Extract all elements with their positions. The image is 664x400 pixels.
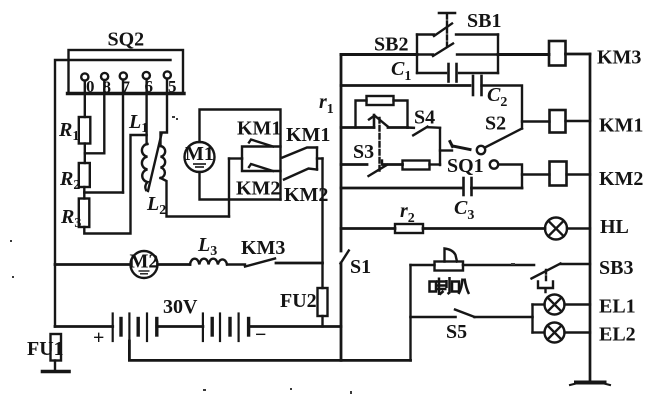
- wire horn branch vertical: [409, 265, 411, 360]
- wire KM2 coil to right rail: [567, 173, 591, 175]
- svg-text:KM3: KM3: [597, 47, 641, 69]
- resistor r2: [395, 224, 423, 233]
- svg-text:M2: M2: [130, 251, 159, 273]
- wire SQ1 lower contact to KM2 coil: [498, 165, 522, 189]
- svg-text:S2: S2: [485, 113, 506, 135]
- wire left rail top jog into SQ2: [55, 60, 171, 327]
- battery B1 plates: [113, 314, 157, 342]
- wire row F r2 branch: [341, 227, 395, 230]
- wire M2 row: [55, 263, 131, 266]
- svg-text:FU2: FU2: [280, 290, 317, 312]
- wire contact box bottom edge: [242, 159, 281, 172]
- wire lamps junction vertical: [531, 305, 533, 333]
- wire to SQ1 pivot: [440, 149, 452, 151]
- svg-text:KM2: KM2: [284, 184, 328, 206]
- node SQ1 upper contact: [477, 146, 485, 154]
- wire r2 to HL: [423, 227, 545, 230]
- wire row C from rail: [341, 126, 374, 129]
- svg-text:SQ1: SQ1: [447, 155, 484, 177]
- node SQ1 lower contact: [490, 160, 498, 168]
- wire S5 to lamps junction: [475, 316, 533, 319]
- pushbutton SB3 blade: [532, 264, 561, 279]
- wire L3 to KM3 contact: [227, 263, 245, 265]
- wire row B C2 branch: [341, 84, 470, 87]
- coil KM3: [549, 41, 566, 66]
- switch S1 blade: [341, 251, 349, 264]
- switch S4 blade: [408, 126, 414, 129]
- wire L2 bottom to motor block: [161, 178, 230, 217]
- svg-text:KM1: KM1: [237, 118, 281, 140]
- svg-text:KM3: KM3: [241, 237, 285, 259]
- pushbutton SB1 actuator: [446, 15, 448, 47]
- svg-text:0: 0: [86, 77, 95, 96]
- wire SB block bottom edge: [417, 72, 446, 74]
- svg-text:S5: S5: [446, 321, 467, 343]
- wire row D to S4 junction: [430, 163, 441, 165]
- fuse FU1: [51, 334, 62, 361]
- wire M1 top loop: [200, 110, 281, 200]
- svg-text:8: 8: [103, 78, 112, 97]
- svg-text:M1: M1: [185, 143, 214, 165]
- wire right contacts edge: [316, 148, 318, 170]
- wire FU2 to battery wire: [321, 316, 323, 327]
- label horn chinese characters: [430, 277, 470, 295]
- wire terminal 8 down: [103, 80, 105, 153]
- battery B2 plates: [203, 314, 249, 342]
- wire S5 row: [411, 316, 456, 319]
- wire battery tap down: [129, 341, 410, 360]
- contact KM1 left blade: [249, 140, 273, 147]
- scan speckles: [10, 116, 515, 394]
- coil KM1: [550, 110, 566, 133]
- wire S4 down to SQ1: [439, 128, 441, 165]
- wire battery middle link: [157, 325, 203, 328]
- wire terminal 7 down: [122, 80, 124, 193]
- resistor in row D: [403, 161, 430, 170]
- wire tap R1/R2 junction to terminal 8 line: [85, 152, 105, 154]
- switch S3 lower blade: [369, 165, 388, 176]
- motor M1: [185, 142, 215, 172]
- wire C2 to KM1 coil: [482, 86, 523, 129]
- wire middle tap down: [228, 159, 230, 217]
- svg-text:HL: HL: [600, 216, 629, 238]
- wire HL to right rail: [567, 227, 590, 229]
- switch S3 upper blade: [373, 115, 376, 128]
- wire top row A: [341, 53, 417, 56]
- wire terminal 0 down to R1: [84, 81, 86, 117]
- contact KM1 right blade: [283, 148, 318, 158]
- battery positive wire: [55, 325, 113, 328]
- node terminal 8: [101, 73, 108, 80]
- wire right contacts tap: [317, 157, 323, 159]
- svg-text:+: +: [93, 327, 104, 349]
- wire C3 to junction: [472, 187, 523, 190]
- wire R3 bottom to L1 primary return: [84, 135, 146, 234]
- switch SQ1 pivot and blade: [450, 142, 453, 147]
- wire M1 bottom: [200, 172, 281, 200]
- wire row D to resistor: [383, 163, 403, 166]
- svg-text:7: 7: [122, 78, 131, 97]
- wire SB block top edge: [417, 33, 434, 35]
- pushbutton SB3 actuator: [545, 270, 547, 281]
- wire middle tap to box: [229, 157, 242, 159]
- inductor L3: [190, 259, 227, 265]
- node terminal 0: [81, 73, 88, 80]
- svg-text:S1: S1: [350, 256, 371, 278]
- wire tap R2/R3 junction to terminal 7 line: [84, 191, 123, 193]
- svg-text:5: 5: [168, 77, 177, 96]
- wire vertical to FU2: [321, 159, 323, 289]
- wire contact box top edge: [242, 147, 281, 159]
- switch S2 blade diagonal: [485, 129, 522, 148]
- wire R1 to R2: [84, 144, 86, 164]
- wire center rail lower: [340, 263, 343, 360]
- svg-text:KM1: KM1: [599, 115, 643, 137]
- svg-text:SQ2: SQ2: [108, 29, 145, 51]
- svg-text:SB3: SB3: [599, 257, 633, 279]
- svg-text:−: −: [255, 324, 266, 346]
- wire transformer core diagonal: [148, 134, 162, 191]
- wire right rail: [589, 54, 592, 382]
- node terminal 6: [143, 72, 150, 79]
- ground right: [576, 381, 605, 385]
- contact KM2 left blade: [249, 164, 273, 171]
- svg-text:6: 6: [145, 77, 154, 96]
- motor M2 inner symbol: [139, 271, 150, 274]
- wire SB3 to right rail: [561, 263, 591, 265]
- switch S3 gang dashed link: [378, 118, 380, 171]
- pushbutton SB1 blade: [434, 24, 452, 37]
- svg-text:KM1: KM1: [286, 124, 330, 146]
- svg-text:EL2: EL2: [599, 324, 636, 346]
- wire SB block right edge: [497, 35, 499, 74]
- pushbutton SB2 blade: [433, 44, 453, 57]
- lamp EL1: [533, 303, 545, 305]
- SQ2 box: [69, 50, 184, 94]
- wire horn to SB3: [463, 264, 534, 267]
- svg-text:SB2: SB2: [374, 34, 408, 56]
- lamp EL2: [533, 331, 545, 333]
- wire KM1 coil to right rail: [566, 120, 591, 122]
- SQ2 bottom thick edge: [68, 92, 185, 95]
- node terminal 7: [120, 72, 127, 79]
- wire terminal 6 down to L1: [145, 79, 147, 144]
- coil KM2: [550, 162, 567, 186]
- lamp HL: [545, 218, 567, 240]
- inductor L1 winding: [142, 144, 148, 190]
- wire row A through block: [417, 53, 433, 55]
- wire row A to KM3 coil: [498, 53, 549, 56]
- svg-text:KM2: KM2: [236, 178, 280, 200]
- horn trumpet: [445, 249, 458, 262]
- svg-text:SB1: SB1: [467, 10, 501, 32]
- ground left: [43, 370, 70, 374]
- capacitor C1: [449, 64, 457, 82]
- wire horn row: [411, 264, 435, 266]
- svg-text:KM2: KM2: [599, 168, 643, 190]
- resistor r1 bypass bracket: [356, 101, 367, 128]
- contact KM2 right blade: [284, 169, 317, 180]
- wire M2 to L3: [158, 263, 191, 266]
- capacitor C2: [473, 76, 482, 95]
- wire battery negative to rail: [249, 325, 341, 328]
- wire SB block left edge: [416, 35, 418, 74]
- node terminal 5: [164, 71, 171, 78]
- capacitor C3: [464, 178, 472, 195]
- resistor R2: [79, 163, 90, 187]
- wire FU1 to ground: [54, 361, 56, 372]
- switch S5 blade: [455, 310, 475, 318]
- svg-text:EL1: EL1: [599, 296, 636, 318]
- wire KM3 coil to right rail: [566, 53, 591, 56]
- resistor R3: [79, 199, 90, 228]
- wire row C middle: [388, 126, 408, 129]
- wire terminal 5 down to L2: [161, 79, 168, 146]
- motor M1 inner symbol: [193, 164, 206, 167]
- wire R2 to R3: [83, 187, 85, 199]
- resistor R1: [79, 117, 91, 144]
- svg-text:30V: 30V: [163, 296, 198, 318]
- fuse FU2: [318, 288, 328, 316]
- motor M2: [131, 251, 158, 278]
- svg-text:S4: S4: [414, 107, 435, 129]
- contact KM3 blade: [245, 259, 275, 267]
- inductor L2 winding: [161, 146, 166, 178]
- svg-text:S3: S3: [353, 141, 374, 163]
- horn body: [435, 262, 464, 271]
- svg-text:FU1: FU1: [27, 338, 64, 360]
- wire row D from rail: [341, 163, 367, 166]
- wire center rail upper: [340, 55, 343, 252]
- wire KM3 contact to FU2 line: [276, 262, 323, 265]
- wire row E C3 branch: [341, 187, 462, 190]
